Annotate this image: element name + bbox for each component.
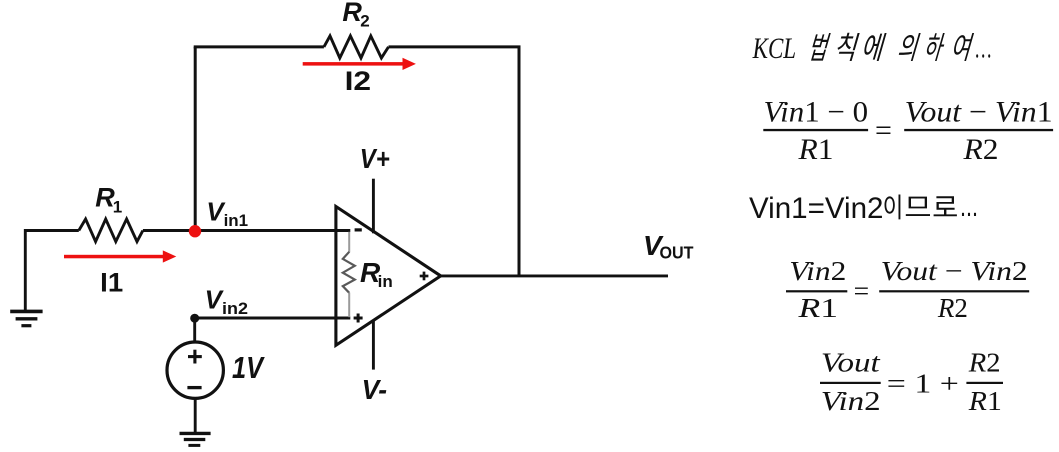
svg-text:=: = — [854, 275, 870, 306]
resistor R1 — [79, 219, 143, 242]
svg-text:Vin2: Vin2 — [789, 255, 846, 286]
current arrow I1 (red) — [64, 250, 176, 262]
power pin wire V+ — [372, 179, 375, 234]
source minus marker — [187, 386, 201, 389]
svg-text:R1: R1 — [797, 133, 833, 166]
svg-text:= 1 +: = 1 + — [887, 368, 959, 399]
op-amp U1 (triangle) — [336, 207, 441, 346]
svg-text:…: … — [976, 33, 992, 65]
svg-text:in1: in1 — [224, 212, 249, 230]
svg-text:in2: in2 — [222, 300, 248, 318]
op-amp output polarity marker (+) — [420, 272, 429, 281]
svg-text:Vin1=Vin2: Vin1=Vin2 — [749, 192, 884, 225]
svg-text:R2: R2 — [962, 133, 998, 166]
wire: non-inverting input from Vin2 node to op-amp — [195, 317, 351, 320]
wire: top rail left of R2 — [194, 45, 324, 48]
wire: source to bottom ground — [194, 398, 197, 432]
svg-text:Vin2: Vin2 — [821, 385, 881, 416]
svg-text:1: 1 — [113, 197, 122, 216]
svg-text:in: in — [378, 272, 393, 291]
wire: left vertical + input segment to R1 — [25, 231, 79, 311]
ground (left, at input) — [10, 311, 42, 325]
svg-text:...: ... — [960, 190, 978, 223]
wire: feedback left vertical (Vin1 node up to top rail) — [194, 47, 197, 232]
wire: top rail right of R2 + feedback right vertical down to output — [389, 47, 520, 276]
svg-text:Vout: Vout — [821, 347, 881, 378]
svg-text:I1: I1 — [100, 268, 123, 298]
resistor R2 — [324, 36, 389, 58]
svg-text:R2: R2 — [937, 292, 968, 323]
svg-text:2: 2 — [360, 11, 369, 30]
svg-text:Vout − Vin2: Vout − Vin2 — [881, 255, 1028, 286]
power pin wire V- — [372, 321, 375, 370]
svg-text:R1: R1 — [968, 385, 1002, 416]
current arrow I2 (red) — [303, 58, 416, 70]
svg-text:R2: R2 — [968, 347, 1001, 378]
op-amp internal resistance Rin (gray network) — [343, 232, 355, 317]
op-amp inverting input marker (-) — [355, 228, 362, 231]
svg-text:=: = — [875, 114, 892, 147]
source plus marker — [188, 350, 202, 364]
wire: op-amp output — [441, 274, 668, 277]
voltage source V1 (1V) — [167, 342, 223, 398]
svg-text:Vin1 − 0: Vin1 − 0 — [764, 95, 869, 128]
svg-text:1V: 1V — [232, 351, 265, 385]
svg-text:V+: V+ — [360, 143, 390, 174]
svg-text:OUT: OUT — [660, 242, 694, 262]
wire: R1 to op-amp inverting input — [143, 229, 350, 232]
svg-text:I2: I2 — [345, 66, 372, 96]
svg-text:V-: V- — [362, 374, 388, 405]
svg-text:R1: R1 — [797, 292, 838, 323]
svg-text:KCL: KCL — [752, 33, 796, 65]
wire: Vin2 node down to source — [193, 318, 196, 342]
ground (bottom, at source) — [180, 433, 211, 445]
svg-text:Vout − Vin1: Vout − Vin1 — [905, 95, 1053, 128]
node Vin2 (junction dot) — [190, 314, 199, 323]
node Vin1 (red junction dot) — [189, 225, 201, 237]
op-amp non-inverting input marker (+) — [354, 314, 363, 323]
